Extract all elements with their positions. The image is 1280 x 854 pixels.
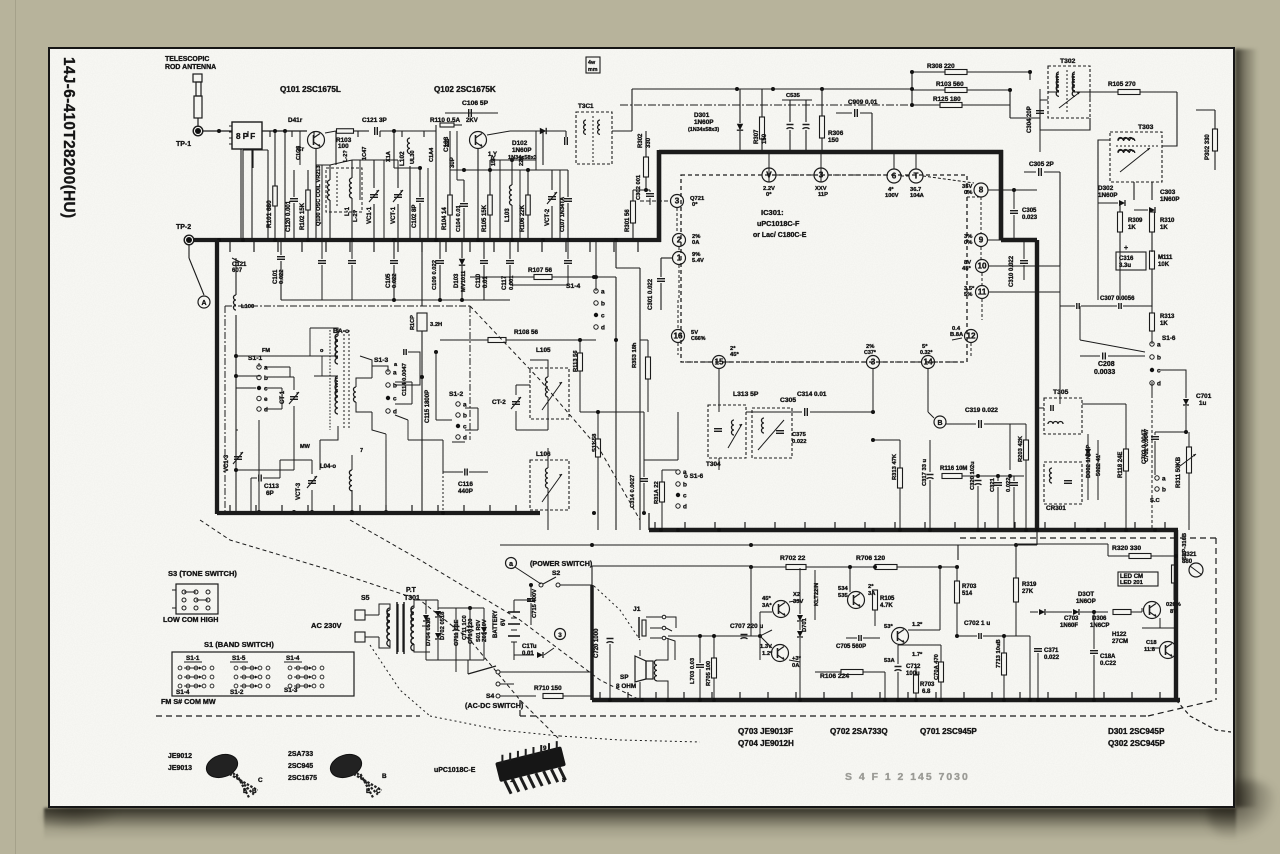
svg-text:MV1011: MV1011 — [461, 270, 467, 292]
svg-text:C110: C110 — [476, 273, 482, 288]
svg-text:(POWER SWITCH): (POWER SWITCH) — [530, 559, 593, 568]
svg-text:C305 2P: C305 2P — [1029, 161, 1055, 168]
antenna — [193, 74, 202, 82]
svg-text:0.022: 0.022 — [792, 439, 807, 445]
svg-text:C310 0.022: C310 0.022 — [1009, 255, 1015, 287]
svg-text:534: 534 — [838, 586, 848, 592]
svg-text:R703: R703 — [920, 682, 935, 688]
resistor R310 1K — [1150, 212, 1155, 232]
bus junction dots — [217, 238, 221, 242]
svg-text:C705 560P: C705 560P — [836, 644, 866, 650]
bar antenna coil — [335, 336, 338, 357]
svg-text:FM S# COM MW: FM S# COM MW — [161, 697, 216, 706]
dotted S5 linkage — [370, 645, 430, 716]
svg-text:440P: 440P — [458, 488, 474, 495]
svg-text:2KV: 2KV — [466, 118, 478, 124]
svg-text:1K: 1K — [1128, 225, 1136, 231]
svg-text:3A*: 3A* — [762, 603, 772, 609]
diode D103 MV101 — [459, 259, 465, 265]
coil T303 bumps extra — [1118, 138, 1135, 141]
svg-text:C712: C712 — [906, 664, 921, 670]
page shadow bottom — [44, 808, 1236, 840]
IC pin 3 left — [671, 195, 684, 208]
svg-text:R105 15K: R105 15K — [482, 204, 488, 232]
resistor R103 100 — [325, 131, 336, 133]
trimmer VCT-1 — [394, 194, 402, 196]
capacitor C101 0.022 b — [277, 256, 285, 258]
svg-text:2*: 2* — [868, 584, 874, 590]
svg-text:S1-6: S1-6 — [1162, 335, 1176, 342]
svg-text:53*: 53* — [884, 624, 893, 630]
svg-text:100: 100 — [338, 143, 349, 150]
svg-text:TP-1: TP-1 — [176, 141, 191, 148]
test point TP-1 — [193, 126, 203, 136]
wire pin11 right — [989, 291, 1060, 293]
wire 3.2H choke — [421, 240, 423, 306]
svg-text:8: 8 — [979, 186, 984, 195]
wire to Q102 — [406, 130, 436, 132]
svg-text:A: A — [201, 300, 206, 307]
svg-text:0.022: 0.022 — [279, 269, 285, 284]
svg-text:R103 560: R103 560 — [936, 81, 964, 88]
bus audio ground thick — [592, 698, 1180, 703]
svg-text:D3OT: D3OT — [1078, 592, 1094, 598]
wire right col down — [1119, 252, 1121, 300]
svg-text:0%: 0% — [964, 190, 972, 196]
wire C319 to bus — [1009, 424, 1011, 470]
svg-text:c: c — [463, 424, 467, 431]
coil L-1 — [350, 178, 353, 198]
svg-text:IC301:: IC301: — [761, 208, 784, 217]
svg-text:S1-1: S1-1 — [186, 655, 200, 662]
svg-text:c: c — [683, 493, 687, 500]
resistor R104 14 — [448, 195, 453, 215]
wire S1-2 links — [465, 407, 478, 409]
power transformer heavier windings — [387, 608, 390, 646]
svg-text:Q702 2SA733Q: Q702 2SA733Q — [830, 727, 888, 736]
svg-text:C115 1800P: C115 1800P — [425, 390, 431, 423]
wire pin3 down — [820, 152, 822, 182]
package DIP16 — [494, 740, 570, 795]
svg-text:d: d — [601, 325, 605, 332]
svg-text:12: 12 — [966, 332, 976, 341]
coil L103 — [510, 185, 513, 205]
tone switch box — [176, 584, 218, 614]
svg-text:o S1-6: o S1-6 — [684, 473, 704, 480]
svg-text:L102: L102 — [399, 151, 406, 166]
svg-text:AC 230V: AC 230V — [311, 621, 342, 630]
svg-text:R313: R313 — [1160, 314, 1175, 320]
tuning extra wires — [236, 375, 260, 377]
svg-text:1N6OP: 1N6OP — [1076, 599, 1096, 605]
wire to tone — [1010, 635, 1030, 637]
wire below-bus rail2 — [322, 299, 352, 301]
svg-text:C18A: C18A — [1100, 654, 1116, 660]
svg-text:S2: S2 — [552, 570, 560, 577]
wire ladder link dots — [910, 70, 914, 74]
filter 8PF — [232, 122, 262, 149]
svg-text:27K: 27K — [1022, 589, 1034, 595]
svg-text:C320 102u: C320 102u — [970, 461, 976, 490]
capacitor C107 — [564, 198, 572, 200]
svg-text:R319: R319 — [1022, 582, 1037, 588]
svg-text:0%: 0% — [964, 240, 972, 246]
wire pin6 up — [893, 152, 895, 169]
svg-text:LED 201: LED 201 — [1120, 580, 1144, 586]
IC301 dashed body — [681, 175, 967, 362]
svg-text:c: c — [1157, 368, 1161, 375]
svg-text:E: E — [366, 788, 370, 795]
svg-text:R105: R105 — [880, 596, 895, 602]
wire audio top rail dots — [848, 565, 852, 569]
svg-text:7: 7 — [360, 448, 363, 454]
wire audio mid — [849, 567, 851, 592]
svg-text:0.32*: 0.32* — [920, 350, 933, 356]
svg-text:S1 (BAND SWITCH): S1 (BAND SWITCH) — [204, 640, 274, 649]
svg-text:3: 3 — [675, 197, 680, 206]
svg-text:a: a — [264, 365, 268, 372]
wire left col extras — [250, 460, 252, 478]
svg-text:a: a — [1162, 476, 1166, 483]
svg-text:D102: D102 — [512, 140, 528, 147]
svg-text:C371: C371 — [1044, 648, 1059, 654]
wire B+ rail y546 — [500, 544, 958, 546]
svg-text:1N60F: 1N60F — [1060, 623, 1078, 629]
transistor Q102 — [470, 132, 487, 149]
svg-text:3.2H: 3.2H — [430, 322, 442, 328]
wire RF rail verticals — [242, 150, 244, 240]
svg-text:C37*: C37* — [864, 350, 877, 356]
svg-text:C18: C18 — [1146, 640, 1157, 646]
svg-text:Q703 JE9013F: Q703 JE9013F — [738, 727, 793, 736]
svg-text:0.0033: 0.0033 — [1094, 369, 1115, 376]
IC pin 10 right — [976, 260, 989, 273]
wire det bus junctions — [717, 528, 721, 532]
svg-text:D302: D302 — [1098, 185, 1114, 192]
switch S1-7 contacts — [1155, 476, 1159, 480]
svg-text:S1-3: S1-3 — [284, 687, 298, 694]
svg-text:C307 0.0056: C307 0.0056 — [1100, 296, 1135, 302]
svg-text:c: c — [393, 396, 397, 403]
svg-text:6: 6 — [892, 172, 897, 181]
svg-text:0A: 0A — [792, 663, 800, 669]
svg-text:C702 1 u: C702 1 u — [964, 620, 990, 627]
bus stub ticks below B1 — [229, 240, 231, 252]
resistor R302 330 — [644, 157, 649, 177]
svg-text:104A: 104A — [910, 193, 925, 199]
svg-text:1N6CP: 1N6CP — [1090, 623, 1109, 629]
wire det row — [872, 369, 874, 412]
capacitor C105 0.022 — [390, 260, 398, 262]
wire bottom-right extras — [1141, 608, 1143, 612]
svg-text:0*: 0* — [766, 192, 772, 198]
svg-text:L04-o: L04-o — [320, 464, 336, 470]
svg-text:c: c — [264, 386, 268, 393]
left bus vertical thick — [215, 240, 219, 514]
svg-text:C375: C375 — [792, 432, 807, 438]
svg-text:C720 1000: C720 1000 — [594, 628, 600, 658]
wire to audio rail — [590, 585, 594, 700]
svg-text:27CM: 27CM — [1112, 639, 1128, 645]
power bottom wire — [455, 660, 457, 672]
svg-text:10: 10 — [977, 262, 987, 271]
svg-text:VCT-1: VCT-1 — [391, 206, 397, 224]
svg-text:C109 0.022: C109 0.022 — [432, 260, 438, 290]
svg-text:R311 50KB: R311 50KB — [1176, 456, 1182, 488]
svg-text:R307: R307 — [754, 129, 760, 144]
resistor R101 680 — [273, 186, 278, 206]
svg-text:a: a — [393, 370, 397, 377]
svg-text:C701: C701 — [1196, 393, 1212, 400]
wire TP-2 down — [188, 244, 190, 258]
wire T302 left drop — [1039, 130, 1041, 152]
node A — [198, 296, 210, 308]
svg-text:CT-2: CT-2 — [492, 399, 506, 406]
svg-text:026%: 026% — [1166, 602, 1181, 608]
dashdot gang box top — [225, 305, 470, 307]
svg-text:L103: L103 — [505, 208, 511, 222]
svg-text:B.8A: B.8A — [950, 332, 964, 338]
svg-text:C116: C116 — [458, 481, 473, 488]
svg-text:L106: L106 — [536, 451, 551, 458]
svg-text:a: a — [509, 561, 513, 568]
svg-text:b: b — [683, 482, 687, 489]
svg-text:607: 607 — [232, 268, 243, 274]
wire C304 rail — [1039, 72, 1041, 89]
svg-text:R1CP: R1CP — [410, 315, 416, 330]
IC pin 11 right — [976, 286, 989, 299]
svg-text:L105: L105 — [536, 347, 551, 354]
wire mid verticals — [615, 277, 617, 530]
svg-text:S1-2: S1-2 — [230, 689, 244, 696]
wire osc top rail — [330, 160, 352, 165]
bus stub ticks detector — [654, 522, 656, 530]
svg-text:2SC945: 2SC945 — [288, 763, 313, 770]
wire S1-6 col — [1079, 306, 1081, 340]
IC pin 16 left — [672, 330, 685, 343]
svg-text:d: d — [264, 407, 268, 414]
wire battery top rail — [484, 599, 531, 601]
IC pin 14 bottom — [922, 356, 935, 369]
svg-text:b: b — [463, 413, 467, 420]
svg-text:S1-2: S1-2 — [449, 391, 463, 398]
svg-text:d: d — [393, 409, 397, 416]
wire pin V down — [768, 152, 770, 182]
svg-text:C316: C316 — [1119, 256, 1134, 262]
wire tuning bottoms — [258, 420, 260, 512]
capacitor C110 0.01 — [480, 260, 488, 262]
svg-text:b: b — [601, 301, 605, 308]
capacitor C101 0.022 — [232, 258, 240, 262]
svg-text:6.8: 6.8 — [922, 689, 931, 695]
bus AM ground thick — [193, 238, 661, 242]
wire secondary coupling — [360, 356, 372, 378]
svg-text:2SC1675: 2SC1675 — [288, 775, 317, 782]
IC301 thick right border — [999, 150, 1004, 240]
svg-text:C301 0.022: C301 0.022 — [648, 278, 654, 310]
band switch table box — [172, 652, 354, 696]
svg-text:30P: 30P — [450, 157, 456, 168]
svg-text:5%: 5% — [964, 292, 972, 298]
svg-text:R320 330: R320 330 — [1112, 545, 1141, 552]
svg-text:R353 18h: R353 18h — [632, 342, 638, 368]
wire left column — [235, 340, 237, 512]
svg-text:R101 680: R101 680 — [266, 200, 273, 228]
svg-text:C314 0.0027: C314 0.0027 — [630, 475, 636, 508]
audio bus junction dots — [608, 698, 612, 702]
page shadow corner — [1208, 780, 1278, 840]
wire right ladder vertical — [911, 72, 913, 105]
svg-text:BATTERY: BATTERY — [493, 610, 499, 638]
svg-text:S4: S4 — [486, 693, 494, 700]
bar antenna secondary — [354, 387, 356, 402]
transformer T201 — [576, 112, 612, 164]
svg-text:uPC1018C-E: uPC1018C-E — [434, 767, 476, 774]
svg-text:1.7*: 1.7* — [912, 652, 923, 658]
node B — [934, 416, 946, 428]
resistor R313 1K — [1150, 313, 1155, 331]
wire pin11 vertical down — [1097, 292, 1099, 300]
svg-text:TELESCOPIC: TELESCOPIC — [165, 56, 209, 63]
page shadow bottom-left — [42, 805, 122, 831]
coil L102 — [407, 138, 410, 154]
svg-text:a: a — [463, 402, 467, 409]
svg-text:C314 0.01: C314 0.01 — [797, 391, 827, 398]
svg-text:C702 0.0047: C702 0.0047 — [1144, 429, 1150, 462]
svg-text:8 OHM: 8 OHM — [616, 683, 636, 690]
svg-text:C66%: C66% — [691, 336, 706, 342]
svg-text:S1-4: S1-4 — [286, 655, 300, 662]
svg-text:B: B — [937, 420, 942, 427]
wire Q stack — [789, 600, 800, 602]
svg-text:16: 16 — [673, 332, 683, 341]
svg-text:+: + — [1124, 245, 1128, 252]
dial cord dashed diagonals — [200, 520, 330, 570]
svg-text:S1-4: S1-4 — [176, 689, 190, 696]
svg-text:R308 220: R308 220 — [927, 63, 955, 70]
svg-text:b: b — [1162, 487, 1166, 494]
svg-text:0A: 0A — [692, 240, 700, 246]
resistor R106 22K — [526, 195, 531, 215]
IC pin 12 right — [965, 330, 978, 343]
svg-text:0.023: 0.023 — [1022, 215, 1038, 221]
svg-text:b: b — [393, 383, 397, 390]
svg-text:b: b — [264, 375, 268, 382]
svg-text:S1-4: S1-4 — [566, 283, 580, 290]
wire S1-5 col — [596, 411, 598, 413]
svg-text:45*: 45* — [762, 596, 771, 602]
svg-text:C208: C208 — [1098, 361, 1115, 368]
svg-text:L313 5P: L313 5P — [733, 391, 759, 398]
svg-text:D301: D301 — [694, 112, 710, 119]
svg-text:TP-2: TP-2 — [176, 224, 191, 231]
bus right steps down thick — [1174, 530, 1178, 700]
svg-text:R706 120: R706 120 — [856, 555, 885, 562]
svg-text:53A: 53A — [884, 658, 895, 664]
svg-text:FM: FM — [262, 348, 270, 354]
svg-text:e: e — [264, 396, 268, 403]
resistor R102 15K — [306, 190, 311, 210]
svg-text:S1-3: S1-3 — [374, 357, 388, 364]
svg-text:C113: C113 — [264, 483, 279, 490]
bus det drop left — [648, 513, 650, 530]
svg-text:D301 2SC945P: D301 2SC945P — [1108, 727, 1165, 736]
package TO92 first — [203, 751, 240, 782]
capacitor C102 8P — [416, 198, 424, 200]
svg-text:R104 14: R104 14 — [442, 207, 448, 230]
resistor R306 150 — [820, 116, 825, 138]
svg-text:C711 1C0: C711 1C0 — [462, 615, 468, 640]
IC pin 15 — [713, 356, 726, 369]
svg-text:M111: M111 — [1158, 255, 1173, 261]
svg-text:S3 (TONE SWITCH): S3 (TONE SWITCH) — [168, 569, 237, 578]
svg-text:14J-6-410T28200(HU): 14J-6-410T28200(HU) — [60, 57, 77, 219]
svg-text:T3C1: T3C1 — [578, 103, 594, 110]
svg-text:T303: T303 — [1138, 124, 1154, 131]
trimmer VCT-2 — [548, 196, 556, 198]
svg-text:B: B — [252, 788, 257, 795]
gang dashdot right edge — [469, 306, 471, 440]
svg-text:L-1: L-1 — [345, 206, 351, 216]
wire antenna to filter — [203, 130, 232, 132]
svg-text:LOW COM HIGH: LOW COM HIGH — [163, 615, 219, 624]
IC pin 3 bottom — [867, 356, 880, 369]
svg-text:MW: MW — [300, 444, 311, 450]
discriminator CR301 — [1044, 462, 1082, 504]
svg-text:uPC1018C-F: uPC1018C-F — [757, 219, 800, 228]
wire Q102 to T301 — [487, 131, 510, 135]
svg-text:100V: 100V — [885, 193, 899, 199]
capacitor C120 0.001 — [290, 198, 298, 200]
svg-text:D41r: D41r — [288, 117, 303, 124]
svg-text:1K: 1K — [1160, 321, 1168, 327]
svg-text:BA-o: BA-o — [333, 328, 349, 335]
svg-text:C: C — [376, 788, 381, 795]
svg-text:R125 180: R125 180 — [933, 96, 961, 103]
svg-text:C715 400V: C715 400V — [532, 589, 538, 618]
svg-text:C120 0.001: C120 0.001 — [286, 200, 292, 232]
svg-text:X1A: X1A — [386, 151, 392, 162]
svg-text:a: a — [601, 289, 605, 296]
svg-text:o: o — [320, 348, 324, 354]
svg-text:8 P F: 8 P F — [236, 132, 255, 141]
bus stub ticks audio — [599, 692, 601, 700]
svg-text:a: a — [1157, 342, 1161, 349]
svg-text:C317 33 u: C317 33 u — [922, 458, 928, 486]
svg-text:d: d — [463, 435, 467, 442]
svg-text:330: 330 — [646, 137, 652, 148]
svg-text:1N60P: 1N60P — [694, 119, 714, 126]
svg-text:VC1-3: VC1-3 — [224, 454, 230, 472]
speaker SP 8 OHM — [635, 656, 646, 682]
power switch node a — [506, 558, 517, 569]
svg-text:8V: 8V — [1170, 609, 1177, 615]
svg-text:0.022: 0.022 — [1044, 655, 1060, 661]
svg-text:C70A 470: C70A 470 — [934, 654, 940, 680]
svg-text:1: 1 — [510, 777, 514, 784]
svg-text:11P: 11P — [818, 192, 828, 198]
svg-text:JE9012: JE9012 — [168, 753, 192, 760]
IC pin 3 top — [814, 168, 828, 182]
svg-text:P.T: P.T — [406, 587, 417, 594]
IC pin 9 right — [975, 234, 988, 247]
svg-text:R102 15K: R102 15K — [300, 202, 306, 230]
circled b node — [555, 629, 566, 640]
wire S1-3 links — [395, 381, 412, 383]
dashed audio enclosure — [520, 715, 1148, 717]
svg-text:Q302 2SC945P: Q302 2SC945P — [1108, 739, 1165, 748]
svg-text:C104 0.01: C104 0.01 — [456, 204, 462, 232]
